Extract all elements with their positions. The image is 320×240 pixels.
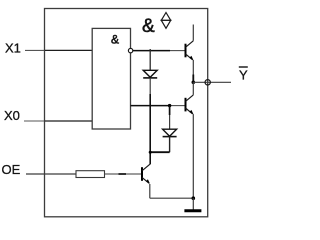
wire OE to resistor bbox=[26, 173, 76, 175]
svg-text:&: & bbox=[111, 33, 119, 47]
wire Q2 emitter down to ground node bbox=[192, 114, 194, 198]
NAND gate U1 box bbox=[92, 28, 130, 129]
input label X0 bbox=[4, 108, 20, 123]
wire D2 branch left to Q3 collector line bbox=[150, 151, 169, 153]
input label OE bbox=[2, 162, 21, 177]
wire output node to terminal bbox=[193, 81, 231, 83]
junction node at collector merge bbox=[149, 151, 152, 154]
svg-text:Y: Y bbox=[239, 68, 248, 83]
wire X0 input bbox=[24, 120, 92, 122]
svg-text:X1: X1 bbox=[5, 40, 21, 55]
wire Q3 emitter down bbox=[149, 184, 151, 198]
transistor Q1 bbox=[186, 41, 194, 60]
wire Q1 collector up bbox=[192, 25, 194, 41]
svg-text:OE: OE bbox=[2, 162, 21, 177]
wire NAND output to Q1 base bbox=[133, 50, 186, 52]
output label Y with overline bbox=[239, 67, 248, 83]
output terminal circle bbox=[205, 80, 210, 85]
wire node to diode D1 bbox=[149, 49, 151, 70]
outer IC boundary box bbox=[45, 9, 208, 217]
NAND gate & label bbox=[111, 33, 119, 47]
tristate diamond symbol bbox=[161, 13, 170, 29]
wire Q1 emitter down to output node bbox=[192, 60, 194, 82]
ground bbox=[184, 209, 201, 212]
NAND output bubble bbox=[128, 48, 132, 52]
diode D2 bbox=[163, 129, 177, 136]
junction node output bbox=[192, 81, 196, 85]
tristate function label & bbox=[142, 16, 155, 37]
junction node at ground lead bbox=[192, 196, 196, 200]
transistor Q2 bbox=[186, 95, 194, 114]
wire NAND second output to Q2 base bbox=[131, 105, 186, 107]
svg-text:&: & bbox=[142, 16, 155, 37]
transistor Q3 bbox=[142, 164, 150, 183]
wire Q3 emitter to ground node bbox=[150, 197, 194, 199]
junction node at D2 top bbox=[168, 104, 171, 107]
wire diode D1 cathode down to Q3 collector bbox=[149, 78, 151, 164]
svg-text:X0: X0 bbox=[4, 108, 20, 123]
wire resistor to Q3 base bbox=[105, 173, 143, 175]
wire Q2 collector up to output node bbox=[192, 82, 194, 95]
resistor R1 bbox=[76, 171, 105, 178]
wire X1 input bbox=[25, 49, 92, 51]
wire ground lead bbox=[192, 198, 194, 210]
diode D1 bbox=[143, 70, 157, 78]
input label X1 bbox=[5, 40, 21, 55]
wire diode D2 cathode down bbox=[169, 137, 171, 153]
wire node to diode D2 bbox=[169, 106, 171, 130]
